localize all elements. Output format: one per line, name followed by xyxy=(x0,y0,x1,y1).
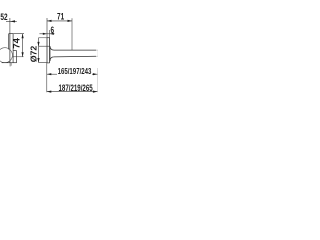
center line xyxy=(13,56,24,58)
arrow O72 mid (points down, tip at y46.2) xyxy=(37,42,39,46)
dim line 1 right part xyxy=(92,73,97,75)
arrow 52 (points left, tip at x10.2) xyxy=(10,20,15,22)
extension line right of 6 xyxy=(49,30,51,38)
flange bottom cap xyxy=(47,62,50,64)
spout base top flare xyxy=(50,46,54,50)
dim line 74 xyxy=(22,34,24,57)
dim line 1 xyxy=(47,73,57,75)
tip knob circle xyxy=(0,48,12,63)
flange left edge xyxy=(46,38,48,63)
O72 mid extension xyxy=(39,45,50,47)
step bridge xyxy=(13,50,17,52)
svg-text:52: 52 xyxy=(0,12,7,22)
dim line 6 xyxy=(39,33,54,35)
tube bottom fade xyxy=(96,55,98,57)
74 top extension xyxy=(13,33,24,35)
svg-text:Ø72: Ø72 xyxy=(29,45,39,62)
flange right edge xyxy=(49,38,51,63)
extension line right of 71 xyxy=(71,18,73,50)
tube top fade xyxy=(96,49,98,51)
neck inner left line xyxy=(9,34,11,63)
arrow dim2 right xyxy=(93,91,98,93)
arrow dim1 right xyxy=(93,73,98,75)
extension line for 52 xyxy=(9,18,11,34)
outlet stub below left view xyxy=(9,63,11,67)
tube tip xyxy=(97,50,99,56)
spout base back edge xyxy=(49,46,51,61)
tube top edge xyxy=(54,49,96,51)
neck right line xyxy=(12,34,14,63)
right extension below tube tip xyxy=(97,68,99,92)
dim line O72 xyxy=(38,38,40,63)
arrow 71 left xyxy=(47,20,52,22)
arrow 74 down xyxy=(22,52,24,57)
svg-text:74: 74 xyxy=(11,37,22,48)
arrow dim2 left xyxy=(47,91,52,93)
step vertical xyxy=(16,51,18,63)
arrow 6 left outside xyxy=(43,33,47,35)
arrow 74 up xyxy=(22,34,24,39)
dim line 2 xyxy=(47,91,98,93)
arrow O72 down xyxy=(37,58,39,63)
left extension below flange xyxy=(46,63,48,92)
O72 bottom extension xyxy=(39,62,48,64)
svg-text:187/219/265: 187/219/265 xyxy=(59,83,93,93)
outlet stub second line xyxy=(11,63,13,66)
arrow 71 right xyxy=(68,20,73,22)
dim line 71 xyxy=(47,20,72,22)
arrow 6 right outside xyxy=(50,33,54,35)
spout base bottom flare xyxy=(50,57,54,61)
tube bottom edge xyxy=(54,55,96,58)
neck outer left line xyxy=(8,34,10,50)
extension left (wall face) above flange xyxy=(46,18,48,38)
svg-text:165/197/243: 165/197/243 xyxy=(58,69,92,77)
arrow dim1 left xyxy=(47,73,52,75)
dim line 52 xyxy=(6,20,17,22)
bottom edge xyxy=(2,62,17,64)
flange top cap xyxy=(47,37,50,39)
neck top cap xyxy=(9,33,13,35)
svg-text:71: 71 xyxy=(57,12,65,22)
O72 top extension xyxy=(39,37,48,39)
